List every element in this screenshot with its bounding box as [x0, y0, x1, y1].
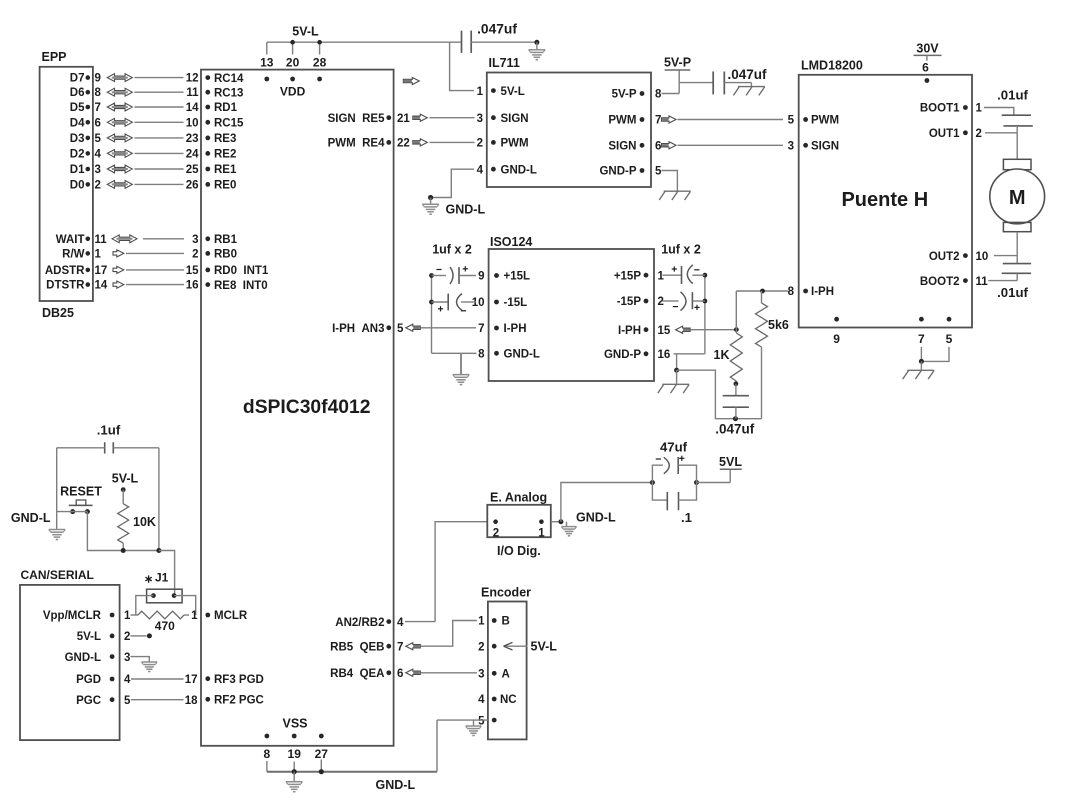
svg-text:I-PH: I-PH — [618, 325, 641, 337]
svg-text:PWM RE4: PWM RE4 — [328, 138, 385, 150]
svg-text:RESET: RESET — [60, 485, 102, 499]
svg-text:GND-P: GND-P — [604, 349, 641, 361]
svg-text:PWM: PWM — [811, 115, 839, 127]
svg-text:PGC: PGC — [76, 695, 101, 707]
svg-text:DTSTR: DTSTR — [46, 280, 85, 292]
svg-text:PGD: PGD — [76, 674, 101, 686]
svg-text:D1: D1 — [70, 164, 85, 176]
svg-text:D4: D4 — [70, 117, 85, 129]
svg-text:10: 10 — [186, 117, 199, 129]
svg-text:MCLR: MCLR — [214, 610, 248, 622]
svg-text:OUT1: OUT1 — [929, 128, 960, 140]
svg-text:.1: .1 — [681, 510, 692, 525]
svg-text:.1uf: .1uf — [97, 423, 121, 438]
svg-text:RE3: RE3 — [214, 133, 236, 145]
svg-text:Encoder: Encoder — [481, 586, 531, 600]
svg-text:RB4 QEA: RB4 QEA — [330, 668, 384, 680]
svg-text:I-PH: I-PH — [504, 323, 527, 335]
svg-text:GND-P: GND-P — [599, 166, 636, 178]
svg-text:2: 2 — [477, 138, 483, 150]
svg-text:1: 1 — [95, 248, 102, 260]
svg-text:AN2/RB2: AN2/RB2 — [335, 617, 384, 629]
svg-text:5V-P: 5V-P — [664, 56, 691, 70]
svg-text:J1: J1 — [155, 571, 169, 585]
svg-text:2: 2 — [124, 631, 130, 643]
svg-text:17: 17 — [185, 674, 198, 686]
svg-text:3: 3 — [478, 669, 484, 681]
svg-text:4: 4 — [124, 674, 131, 686]
svg-text:3: 3 — [788, 141, 794, 153]
svg-text:2: 2 — [95, 179, 101, 191]
svg-text:470: 470 — [155, 619, 175, 633]
svg-text:11: 11 — [95, 234, 108, 246]
svg-text:22: 22 — [397, 138, 410, 150]
svg-text:1: 1 — [477, 86, 484, 98]
svg-text:3: 3 — [192, 234, 198, 246]
svg-text:D3: D3 — [70, 133, 85, 145]
svg-text:1: 1 — [976, 103, 983, 115]
svg-text:7: 7 — [95, 102, 101, 114]
svg-text:SIGN: SIGN — [501, 113, 529, 125]
svg-text:8: 8 — [95, 87, 102, 99]
svg-text:B: B — [502, 616, 510, 628]
svg-text:GND-L: GND-L — [576, 511, 616, 525]
svg-text:47uf: 47uf — [660, 440, 688, 455]
svg-text:VSS: VSS — [282, 717, 307, 731]
svg-text:RB5 QEB: RB5 QEB — [330, 641, 384, 653]
svg-text:RC13: RC13 — [214, 87, 243, 99]
svg-text:3: 3 — [477, 113, 483, 125]
svg-text:15: 15 — [658, 325, 671, 337]
svg-text:BOOT1: BOOT1 — [920, 103, 960, 115]
svg-text:E. Analog: E. Analog — [490, 491, 547, 505]
svg-text:GND-L: GND-L — [376, 778, 416, 792]
svg-text:5: 5 — [95, 133, 102, 145]
svg-text:10: 10 — [976, 251, 989, 263]
svg-text:12: 12 — [186, 73, 199, 85]
svg-text:Puente H: Puente H — [841, 189, 928, 211]
svg-text:SIGN: SIGN — [811, 141, 839, 153]
svg-text:Vpp/MCLR: Vpp/MCLR — [43, 610, 102, 622]
svg-text:18: 18 — [185, 695, 198, 707]
svg-text:-15P: -15P — [617, 296, 642, 308]
svg-text:9: 9 — [833, 332, 840, 346]
svg-text:D6: D6 — [70, 87, 85, 99]
svg-text:2: 2 — [493, 528, 499, 540]
svg-text:30V: 30V — [916, 42, 939, 56]
svg-text:4: 4 — [95, 148, 102, 160]
svg-text:LMD18200: LMD18200 — [801, 59, 863, 73]
svg-text:10K: 10K — [133, 515, 156, 529]
svg-text:RC14: RC14 — [214, 73, 244, 85]
svg-text:1: 1 — [478, 616, 485, 628]
svg-text:3: 3 — [95, 164, 101, 176]
svg-text:4: 4 — [397, 617, 404, 629]
svg-text:+15L: +15L — [504, 271, 531, 283]
svg-text:.047uf: .047uf — [477, 22, 517, 37]
svg-text:8: 8 — [264, 747, 271, 761]
svg-text:GND-L: GND-L — [11, 511, 51, 525]
svg-text:1: 1 — [658, 270, 665, 282]
svg-text:SIGN: SIGN — [608, 141, 636, 153]
svg-text:PWM: PWM — [608, 115, 636, 127]
svg-text:11: 11 — [186, 87, 199, 99]
svg-text:RF3 PGD: RF3 PGD — [214, 674, 264, 686]
svg-text:5V-L: 5V-L — [77, 631, 101, 643]
svg-text:14: 14 — [95, 280, 108, 292]
svg-text:D5: D5 — [70, 102, 85, 114]
svg-text:8: 8 — [478, 349, 485, 361]
svg-text:11: 11 — [976, 276, 989, 288]
svg-text:1: 1 — [124, 610, 131, 622]
svg-text:D2: D2 — [70, 148, 85, 160]
svg-text:.047uf: .047uf — [715, 422, 755, 437]
svg-text:RE0: RE0 — [214, 180, 236, 192]
svg-text:NC: NC — [500, 694, 517, 706]
svg-text:GND-L: GND-L — [65, 652, 101, 664]
svg-text:A: A — [502, 669, 510, 681]
svg-text:5V-L: 5V-L — [112, 472, 139, 486]
svg-text:5V-L: 5V-L — [531, 640, 558, 654]
svg-text:3: 3 — [124, 652, 130, 664]
svg-text:21: 21 — [397, 113, 410, 125]
svg-text:I/O Dig.: I/O Dig. — [497, 544, 541, 558]
svg-text:RE1: RE1 — [214, 164, 237, 176]
svg-text:2: 2 — [658, 296, 664, 308]
svg-text:26: 26 — [186, 179, 199, 191]
svg-text:7: 7 — [655, 115, 661, 127]
svg-text:14: 14 — [186, 102, 199, 114]
svg-text:7: 7 — [478, 323, 484, 335]
svg-text:1uf x 2: 1uf x 2 — [432, 243, 472, 257]
svg-text:1K: 1K — [714, 348, 730, 362]
svg-text:SIGN RE5: SIGN RE5 — [328, 113, 385, 125]
svg-text:1uf x 2: 1uf x 2 — [661, 243, 701, 257]
svg-text:5k6: 5k6 — [768, 318, 789, 332]
svg-text:RE8 INT0: RE8 INT0 — [214, 280, 268, 292]
svg-text:RD0 INT1: RD0 INT1 — [214, 265, 269, 277]
svg-text:4: 4 — [478, 694, 485, 706]
svg-text:IL711: IL711 — [489, 56, 520, 70]
svg-text:ADSTR: ADSTR — [45, 265, 85, 277]
svg-text:D0: D0 — [70, 179, 85, 191]
svg-text:DB25: DB25 — [42, 306, 74, 320]
svg-text:8: 8 — [788, 286, 795, 298]
svg-text:23: 23 — [186, 133, 199, 145]
svg-text:2: 2 — [478, 641, 484, 653]
svg-text:RF2 PGC: RF2 PGC — [214, 695, 264, 707]
svg-text:.01uf: .01uf — [997, 88, 1028, 103]
svg-text:8: 8 — [655, 89, 662, 101]
svg-text:6: 6 — [397, 668, 403, 680]
svg-text:5V-L: 5V-L — [292, 25, 319, 39]
svg-text:RB1: RB1 — [214, 234, 238, 246]
svg-text:7: 7 — [397, 641, 403, 653]
svg-text:2: 2 — [976, 128, 982, 140]
svg-text:RC15: RC15 — [214, 118, 244, 130]
svg-text:WAIT: WAIT — [56, 234, 85, 246]
svg-text:13: 13 — [260, 56, 274, 70]
svg-text:RD1: RD1 — [214, 102, 238, 114]
svg-text:6: 6 — [95, 117, 101, 129]
svg-text:∗: ∗ — [144, 574, 153, 586]
svg-text:PWM: PWM — [501, 138, 529, 150]
svg-text:5V-P: 5V-P — [612, 89, 637, 101]
svg-text:2: 2 — [192, 248, 198, 260]
svg-text:5: 5 — [655, 166, 662, 178]
svg-text:dSPIC30f4012: dSPIC30f4012 — [243, 397, 371, 418]
svg-text:GND-L: GND-L — [446, 203, 486, 217]
svg-text:6: 6 — [655, 141, 661, 153]
svg-text:1: 1 — [538, 528, 545, 540]
svg-text:5: 5 — [124, 695, 131, 707]
svg-text:BOOT2: BOOT2 — [920, 276, 960, 288]
svg-text:20: 20 — [286, 56, 300, 70]
svg-text:GND-L: GND-L — [504, 349, 540, 361]
svg-text:.01uf: .01uf — [997, 285, 1028, 300]
svg-text:GND-L: GND-L — [501, 164, 537, 176]
svg-text:16: 16 — [186, 280, 199, 292]
svg-text:D7: D7 — [70, 73, 85, 85]
svg-text:RE2: RE2 — [214, 149, 236, 161]
svg-text:5: 5 — [788, 115, 795, 127]
svg-text:6: 6 — [922, 61, 929, 75]
svg-text:5: 5 — [397, 323, 404, 335]
svg-text:-15L: -15L — [504, 297, 528, 309]
svg-text:5: 5 — [946, 332, 953, 346]
svg-text:.047uf: .047uf — [728, 67, 768, 82]
svg-text:5VL: 5VL — [719, 455, 742, 469]
svg-text:7: 7 — [918, 332, 925, 346]
svg-text:RB0: RB0 — [214, 249, 237, 261]
svg-text:+15P: +15P — [614, 270, 642, 282]
svg-text:ISO124: ISO124 — [490, 235, 532, 249]
svg-text:15: 15 — [186, 265, 199, 277]
svg-text:I-PH AN3: I-PH AN3 — [332, 323, 384, 335]
svg-text:28: 28 — [313, 56, 327, 70]
svg-text:17: 17 — [95, 265, 108, 277]
svg-text:16: 16 — [658, 349, 671, 361]
svg-text:4: 4 — [477, 164, 484, 176]
svg-text:10: 10 — [472, 297, 485, 309]
svg-text:CAN/SERIAL: CAN/SERIAL — [21, 568, 94, 582]
svg-text:5V-L: 5V-L — [501, 86, 525, 98]
svg-text:I-PH: I-PH — [811, 286, 834, 298]
svg-text:1: 1 — [191, 610, 198, 622]
svg-text:VDD: VDD — [280, 85, 306, 99]
svg-text:M: M — [1009, 187, 1026, 209]
svg-text:9: 9 — [478, 271, 484, 283]
svg-text:OUT2: OUT2 — [929, 251, 960, 263]
svg-text:24: 24 — [186, 148, 199, 160]
svg-text:9: 9 — [95, 73, 101, 85]
svg-text:EPP: EPP — [42, 50, 67, 64]
svg-text:25: 25 — [186, 164, 199, 176]
svg-text:27: 27 — [315, 747, 329, 761]
svg-text:R/W: R/W — [62, 248, 85, 260]
svg-text:19: 19 — [288, 747, 302, 761]
